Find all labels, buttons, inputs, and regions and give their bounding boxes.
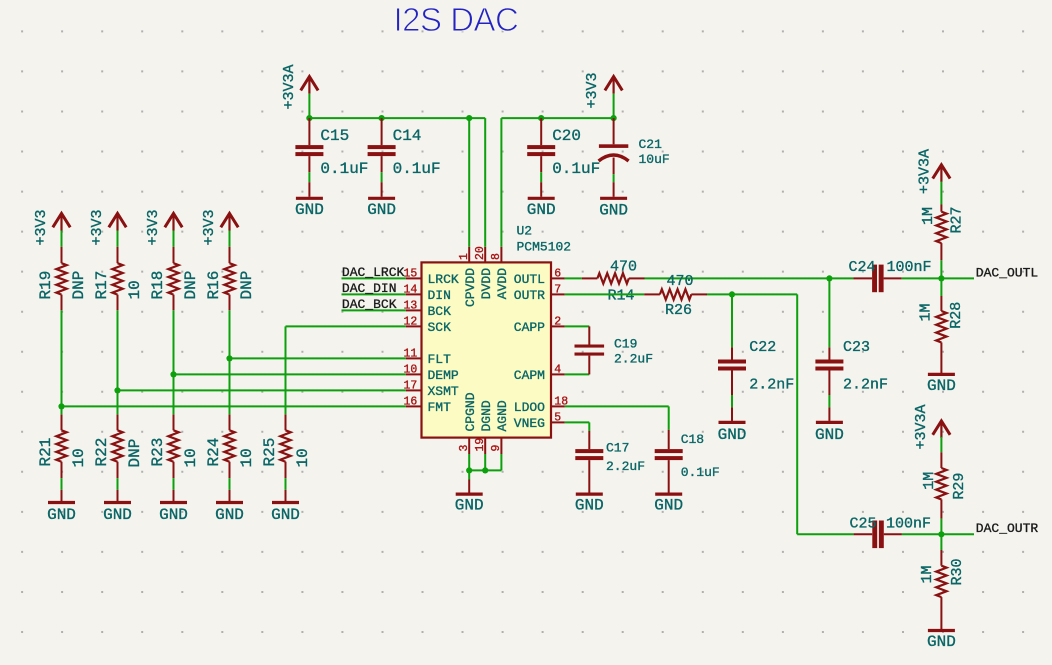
svg-text:DNP: DNP [126, 439, 144, 468]
pin 16 FMT [403, 396, 451, 415]
ground [718, 407, 747, 444]
pin 3 CPGND [458, 392, 478, 454]
svg-text:5: 5 [554, 412, 561, 425]
svg-text:R26: R26 [665, 302, 692, 319]
svg-text:19: 19 [474, 438, 487, 452]
svg-text:DGND: DGND [479, 400, 494, 431]
svg-text:7: 7 [554, 284, 561, 297]
wire [468, 470, 470, 479]
wire [565, 421, 590, 423]
svg-text:GND: GND [295, 201, 324, 219]
wire [62, 405, 406, 407]
net label DAC_OUTR [976, 521, 1039, 536]
pin 2 CAPP [514, 316, 565, 335]
junction [938, 275, 944, 281]
net label DAC_DIN [342, 281, 406, 296]
svg-text:GND: GND [215, 506, 244, 524]
svg-text:R24: R24 [205, 438, 223, 467]
svg-text:FMT: FMT [428, 400, 452, 415]
pin 15 LRCK [403, 268, 458, 287]
wire [707, 293, 797, 295]
ground [47, 490, 76, 524]
svg-text:LDOO: LDOO [514, 400, 545, 415]
junction [466, 115, 472, 121]
pin 6 OUTL [514, 268, 565, 287]
wire [828, 395, 830, 407]
svg-text:DNP: DNP [70, 271, 88, 300]
svg-text:+3V3A: +3V3A [913, 404, 930, 449]
capacitor C21 polarized [599, 118, 670, 174]
svg-text:+3V3: +3V3 [145, 209, 162, 245]
ground [455, 480, 484, 515]
wire [173, 231, 175, 247]
wire [309, 117, 485, 119]
wire [229, 478, 231, 490]
svg-text:C17: C17 [606, 441, 629, 456]
svg-text:U2: U2 [517, 224, 533, 239]
svg-text:CAPP: CAPP [514, 320, 545, 335]
svg-text:CPVDD: CPVDD [463, 268, 478, 307]
capacitor C15 [295, 118, 368, 178]
junction [170, 371, 176, 377]
resistor R23 [149, 415, 200, 479]
svg-text:AVDD: AVDD [495, 268, 510, 299]
svg-text:R29: R29 [951, 473, 968, 500]
svg-text:GND: GND [159, 506, 188, 524]
wire [61, 478, 63, 490]
wire [940, 534, 942, 550]
net label DAC_BCK [342, 297, 406, 312]
svg-text:R28: R28 [948, 302, 965, 329]
resistor R26 [644, 273, 707, 319]
resistor R24 [205, 415, 256, 479]
svg-text:+3V3: +3V3 [201, 209, 218, 245]
wire [468, 454, 470, 470]
svg-text:DAC_OUTR: DAC_OUTR [976, 521, 1039, 536]
svg-text:C19: C19 [614, 336, 637, 351]
junction [938, 531, 944, 537]
svg-text:OUTL: OUTL [514, 272, 545, 287]
wire [173, 478, 175, 490]
svg-text:+3V3: +3V3 [584, 72, 601, 108]
ground [295, 182, 324, 219]
svg-text:4: 4 [554, 364, 561, 377]
junction [538, 115, 544, 121]
svg-text:+3V3: +3V3 [33, 209, 50, 245]
pin 18 LDOO [514, 396, 568, 415]
svg-text:10: 10 [126, 280, 144, 299]
ground [927, 631, 956, 652]
ground [103, 490, 132, 524]
pin 13 BCK [403, 300, 451, 319]
svg-text:R25: R25 [261, 438, 279, 467]
svg-text:9: 9 [490, 445, 503, 452]
power +3V3A above R29 [913, 404, 950, 449]
svg-text:0.1uF: 0.1uF [552, 160, 600, 178]
svg-text:I2S DAC: I2S DAC [394, 1, 519, 38]
svg-text:470: 470 [667, 273, 694, 290]
svg-text:DVDD: DVDD [479, 268, 494, 299]
svg-text:LRCK: LRCK [428, 272, 459, 287]
svg-text:C22: C22 [749, 339, 776, 356]
wire [540, 172, 542, 182]
wire [230, 357, 406, 359]
svg-text:GND: GND [367, 201, 396, 219]
wire [468, 118, 470, 247]
pin 9 AGND [490, 400, 510, 454]
svg-text:C18: C18 [681, 432, 704, 447]
resistor R22 [93, 415, 144, 479]
resistor R27 [920, 205, 966, 261]
svg-text:1: 1 [458, 253, 471, 260]
svg-text:GND: GND [599, 202, 628, 220]
junction [826, 275, 832, 281]
svg-text:BCK: BCK [428, 304, 452, 319]
svg-text:SCK: SCK [428, 320, 452, 335]
junction [466, 467, 472, 473]
svg-text:1M: 1M [920, 207, 937, 225]
wire [940, 519, 942, 535]
pin 10 DEMP [403, 364, 458, 383]
net label DAC_LRCK [342, 265, 406, 280]
svg-text:0.1uF: 0.1uF [681, 465, 720, 480]
wire [484, 454, 486, 470]
svg-text:1M: 1M [919, 565, 936, 583]
svg-text:DNP: DNP [238, 271, 256, 300]
resistor R17 [93, 247, 144, 310]
junction [226, 355, 232, 361]
wire [174, 373, 406, 375]
wire [501, 117, 613, 119]
pin 5 VNEG [514, 412, 565, 431]
svg-text:GND: GND [815, 426, 844, 444]
wire [381, 172, 383, 182]
power +3V3 above R19 [33, 209, 70, 245]
resistor R30 [919, 550, 966, 629]
capacitor C20 [527, 118, 600, 178]
wire [117, 310, 119, 390]
capacitor C25 [850, 516, 932, 549]
svg-text:100nF: 100nF [887, 259, 932, 276]
svg-text:0.1uF: 0.1uF [393, 160, 441, 178]
wire [229, 310, 231, 358]
power +3V3 above R18 [145, 209, 182, 245]
wire [285, 326, 287, 414]
junction [379, 115, 385, 121]
svg-text:PCM5102: PCM5102 [517, 240, 572, 255]
svg-text:VNEG: VNEG [514, 416, 545, 431]
wire [285, 478, 287, 490]
net label DAC_OUTL [976, 265, 1038, 280]
wire [731, 395, 733, 407]
power +3V3 above R16 [201, 209, 238, 245]
svg-text:GND: GND [103, 506, 132, 524]
resistor R18 [149, 247, 200, 310]
wire [229, 358, 231, 414]
resistor R19 [37, 247, 88, 310]
ground [575, 494, 604, 514]
wire [940, 278, 942, 296]
power +3V3A top [281, 64, 318, 109]
pin 17 XSMT [403, 380, 458, 399]
svg-text:1M: 1M [918, 303, 935, 321]
ground [927, 374, 956, 395]
pin 1 CPVDD [458, 247, 478, 307]
wire [61, 231, 63, 247]
wire [613, 94, 615, 119]
svg-text:R18: R18 [149, 271, 167, 300]
svg-text:DIN: DIN [428, 288, 451, 303]
capacitor C17 [575, 431, 645, 493]
wire [565, 325, 590, 327]
svg-text:10: 10 [182, 448, 200, 467]
wire [308, 94, 310, 119]
svg-text:AGND: AGND [495, 400, 510, 431]
svg-text:10: 10 [70, 448, 88, 467]
pin 11 FLT [403, 348, 451, 367]
svg-text:XSMT: XSMT [428, 384, 459, 399]
junction [58, 403, 64, 409]
svg-text:2.2uF: 2.2uF [614, 352, 653, 367]
junction [729, 291, 735, 297]
ground [367, 182, 396, 219]
svg-text:DAC_LRCK: DAC_LRCK [342, 265, 405, 280]
svg-text:2.2nF: 2.2nF [749, 376, 794, 393]
pin 14 DIN [403, 284, 450, 303]
wire [613, 174, 615, 182]
wire [173, 374, 175, 414]
svg-text:GND: GND [575, 497, 604, 515]
wire [902, 277, 974, 279]
pin 12 SCK [403, 316, 451, 335]
svg-text:GND: GND [927, 377, 956, 395]
ground [599, 182, 628, 219]
svg-text:CPGND: CPGND [463, 392, 478, 431]
svg-text:GND: GND [47, 506, 76, 524]
wire [500, 118, 502, 247]
resistor R14 [582, 259, 645, 305]
wire [565, 373, 590, 375]
junction [611, 115, 617, 121]
svg-text:6: 6 [554, 268, 561, 281]
svg-text:+3V3A: +3V3A [917, 149, 934, 194]
wire [565, 277, 582, 279]
svg-text:R19: R19 [37, 271, 55, 300]
ground [215, 490, 244, 524]
wire [117, 390, 119, 414]
wire [645, 277, 854, 279]
pin 8 AVDD [490, 247, 510, 299]
capacitor C14 [368, 118, 441, 178]
svg-text:GND: GND [654, 497, 683, 515]
svg-text:2.2nF: 2.2nF [843, 376, 888, 393]
resistor R25 [261, 415, 312, 479]
svg-text:C15: C15 [320, 127, 349, 145]
resistor R16 [205, 247, 256, 310]
svg-text:GND: GND [527, 201, 556, 219]
svg-text:R14: R14 [608, 288, 635, 305]
svg-text:R17: R17 [93, 271, 111, 300]
svg-text:DEMP: DEMP [428, 368, 459, 383]
wire [118, 389, 406, 391]
svg-text:10: 10 [294, 448, 312, 467]
capacitor C22 [718, 339, 794, 395]
resistor R21 [37, 415, 88, 479]
capacitor C23 [815, 339, 888, 395]
wire [565, 405, 669, 407]
junction [306, 115, 312, 121]
capacitor C18 [655, 430, 720, 493]
svg-text:FLT: FLT [428, 352, 452, 367]
wire [940, 182, 942, 205]
svg-text:100nF: 100nF [886, 516, 931, 533]
wire [565, 293, 644, 295]
svg-text:DAC_BCK: DAC_BCK [342, 297, 397, 312]
wire [588, 422, 590, 431]
ground [271, 490, 300, 524]
svg-text:OUTR: OUTR [514, 288, 545, 303]
svg-text:R23: R23 [149, 438, 167, 467]
power +3V3 top [584, 72, 623, 108]
svg-text:20: 20 [474, 246, 487, 260]
svg-text:8: 8 [490, 253, 503, 260]
svg-text:GND: GND [271, 506, 300, 524]
wire [61, 406, 63, 414]
svg-text:0.1uF: 0.1uF [320, 160, 368, 178]
svg-text:R16: R16 [205, 271, 223, 300]
wire [500, 454, 502, 470]
wire [484, 118, 486, 247]
svg-text:C25: C25 [850, 516, 877, 533]
resistor R28 [918, 296, 966, 373]
svg-text:R22: R22 [93, 438, 111, 467]
svg-text:3: 3 [458, 445, 471, 452]
pin 20 DVDD [474, 246, 494, 299]
wire [173, 310, 175, 374]
pin 7 OUTR [514, 284, 565, 303]
svg-text:2: 2 [554, 316, 561, 329]
svg-text:GND: GND [718, 426, 747, 444]
wire [902, 533, 974, 535]
svg-text:CAPM: CAPM [514, 368, 545, 383]
svg-text:GND: GND [455, 497, 484, 515]
svg-text:2.2uF: 2.2uF [606, 459, 645, 474]
ground [527, 182, 556, 219]
svg-text:+3V3A: +3V3A [281, 64, 298, 109]
svg-text:R30: R30 [949, 558, 966, 585]
svg-text:R27: R27 [949, 206, 966, 233]
wire [796, 294, 798, 534]
wire [940, 260, 942, 278]
svg-text:C21: C21 [639, 137, 663, 152]
wire [308, 172, 310, 182]
junction [482, 467, 488, 473]
resistor R29 [921, 452, 968, 518]
svg-text:C14: C14 [393, 127, 422, 145]
wire [940, 437, 942, 452]
IC U2 PCM5102 body [422, 262, 552, 437]
title text I2S DAC [394, 1, 519, 38]
ground [159, 490, 188, 524]
svg-text:470: 470 [610, 259, 637, 276]
power +3V3 above R17 [89, 209, 126, 245]
power +3V3A above R27 [917, 149, 951, 194]
svg-text:R21: R21 [37, 438, 55, 467]
svg-text:DNP: DNP [182, 271, 200, 300]
svg-text:C23: C23 [843, 339, 870, 356]
wire [117, 478, 119, 490]
pin 19 DGND [474, 400, 494, 454]
svg-text:10: 10 [238, 448, 256, 467]
wire [117, 231, 119, 247]
svg-text:DAC_OUTL: DAC_OUTL [976, 265, 1038, 280]
wire [229, 231, 231, 247]
svg-text:10uF: 10uF [639, 152, 670, 167]
ground [654, 494, 683, 514]
wire [668, 406, 670, 429]
wire [469, 469, 501, 471]
svg-text:1M: 1M [921, 472, 938, 490]
wire [828, 278, 830, 347]
svg-text:C20: C20 [552, 127, 581, 145]
pin 4 CAPM [514, 364, 565, 383]
capacitor C24 [849, 259, 932, 292]
IC U2 reference [517, 224, 572, 255]
svg-text:C24: C24 [849, 259, 876, 276]
ground [815, 407, 844, 444]
capacitor C19 [575, 326, 654, 374]
wire [286, 325, 406, 327]
svg-text:DAC_DIN: DAC_DIN [342, 281, 397, 296]
svg-text:+3V3: +3V3 [89, 209, 106, 245]
wire [61, 310, 63, 406]
wire [731, 294, 733, 347]
wire [797, 533, 853, 535]
svg-text:GND: GND [927, 633, 956, 651]
junction [114, 387, 120, 393]
